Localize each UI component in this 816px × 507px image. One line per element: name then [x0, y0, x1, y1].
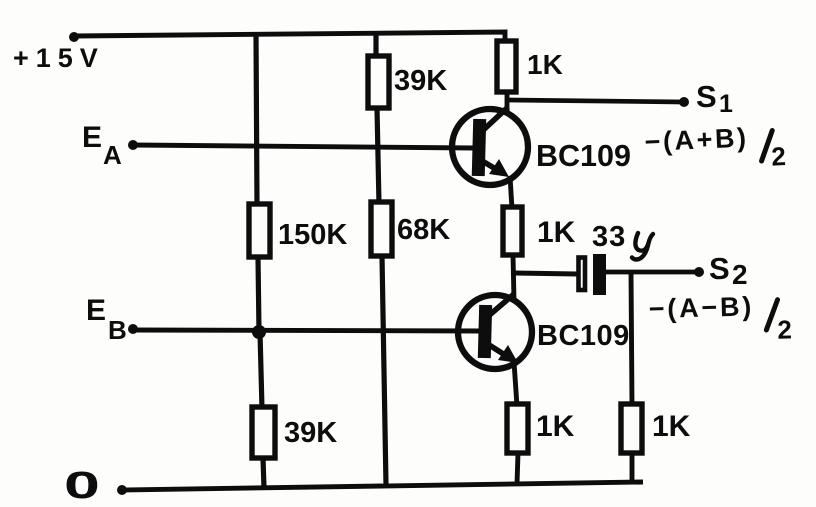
resistor R1 39K top — [368, 56, 447, 108]
resistor R2 1K collector Q1 — [497, 41, 563, 92]
wire: R8 bottom to 0 rail — [630, 453, 635, 483]
capacitor C1 33u coupling — [514, 254, 698, 295]
node: EB junction dot — [252, 325, 266, 339]
wire: Q2 emitter down to R7 — [514, 362, 517, 406]
wire: R7 bottom to 0 rail — [517, 453, 518, 484]
svg-text:2: 2 — [777, 314, 792, 344]
svg-text:1K: 1K — [537, 216, 576, 249]
svg-text:E: E — [82, 121, 102, 154]
resistor R8 1K load — [621, 404, 691, 453]
resistor R5 1K emitter Q1 — [503, 207, 576, 255]
svg-text:39K: 39K — [394, 65, 447, 97]
svg-text:E: E — [86, 294, 106, 327]
svg-text:0: 0 — [64, 464, 100, 506]
wire: R2 bottom to Q1 collector — [505, 92, 510, 113]
transistor Q2 BC109 — [458, 294, 532, 369]
wire: EB junction down to R6 — [260, 332, 262, 409]
wire: R1 bottom to EA wire crossing — [377, 108, 379, 204]
svg-text:39K: 39K — [284, 417, 337, 449]
S1 label — [696, 79, 733, 118]
svg-text:68K: 68K — [397, 214, 450, 246]
C1 value label 33u — [592, 221, 653, 260]
0V ground rail — [117, 482, 643, 495]
svg-text:+15V: +15V — [13, 43, 105, 73]
svg-text:33: 33 — [592, 221, 626, 253]
svg-text:1K: 1K — [652, 410, 691, 443]
wire: node B column (39K/68K branch) from +15V rail down — [373, 33, 378, 58]
svg-text:−(A−B): −(A−B) — [648, 291, 754, 324]
input EA terminal — [128, 140, 474, 150]
transistor Q1 BC109 — [452, 107, 528, 185]
EB label — [86, 294, 127, 345]
resistor R7 1K emitter Q2 — [507, 404, 575, 453]
svg-text:1K: 1K — [527, 49, 563, 80]
svg-text:1: 1 — [719, 90, 733, 118]
input EB terminal — [128, 324, 481, 334]
wire: R3 bottom to EB junction — [258, 257, 259, 332]
wire: R4 bottom down to 0 rail — [382, 256, 386, 485]
wire: node A column (150K branch) from +15V rail down — [256, 33, 257, 206]
S1 function label -(A+B)/2 — [644, 121, 787, 177]
svg-text:2: 2 — [771, 141, 787, 172]
svg-text:2: 2 — [732, 259, 748, 290]
resistor R4 68K — [371, 202, 450, 256]
svg-text:BC109: BC109 — [537, 320, 630, 352]
svg-text:150K: 150K — [278, 219, 347, 251]
svg-text:S: S — [696, 79, 717, 114]
resistor R6 39K bottom — [252, 407, 337, 458]
output S1 wire — [507, 97, 689, 107]
wire: S2 node down to R8 — [631, 272, 632, 406]
resistor R3 150K — [249, 204, 347, 257]
svg-text:S: S — [709, 251, 730, 286]
output S2 terminal — [694, 267, 704, 277]
svg-text:B: B — [108, 315, 127, 345]
wire: Q1 emitter down to R5 — [510, 176, 512, 209]
S2 label — [709, 251, 748, 290]
svg-text:BC109: BC109 — [536, 139, 631, 173]
+15V supply rail — [69, 32, 505, 42]
svg-text:A: A — [103, 140, 122, 170]
wire: R6 bottom to 0 rail — [263, 458, 264, 488]
wire: R5 bottom to Q2 collector node — [513, 255, 514, 300]
S2 function label -(A-B)/2 — [648, 290, 792, 348]
svg-text:−(A+B): −(A+B) — [644, 123, 749, 158]
EA label — [82, 121, 122, 170]
svg-text:1K: 1K — [536, 410, 575, 443]
